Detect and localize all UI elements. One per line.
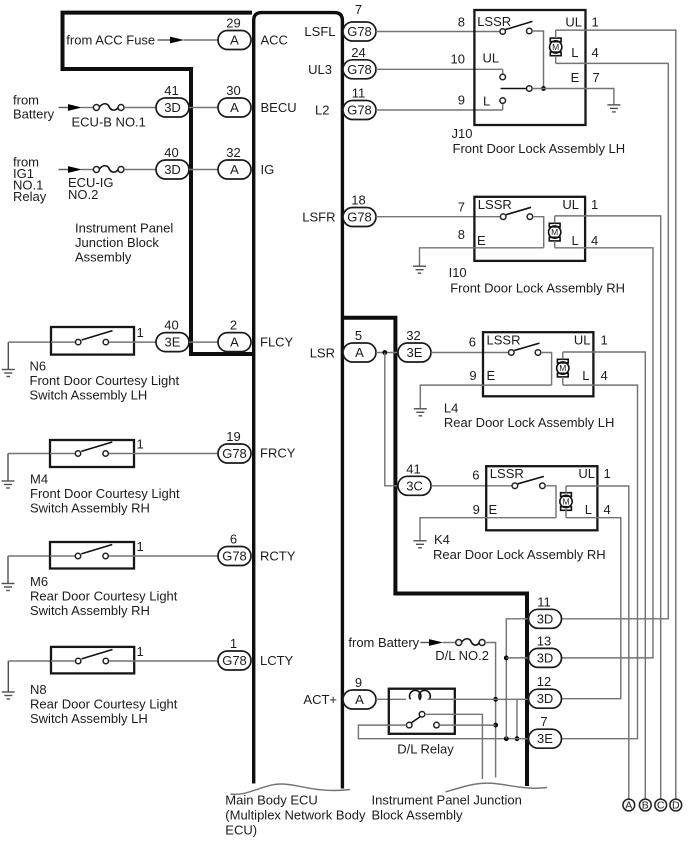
svg-text:J10: J10	[452, 126, 473, 141]
svg-text:BECU: BECU	[261, 100, 297, 115]
svg-text:Assembly: Assembly	[75, 250, 132, 265]
node: from Battery	[13, 92, 55, 121]
label L4 assembly	[444, 400, 615, 430]
svg-text:M: M	[559, 363, 566, 373]
svg-text:D/L Relay: D/L Relay	[397, 742, 454, 757]
svg-text:3D: 3D	[537, 691, 554, 706]
svg-text:9: 9	[355, 675, 362, 690]
svg-text:G78: G78	[222, 446, 247, 461]
relay coil	[410, 690, 431, 699]
connector oval 3C pin 41 (LSR branch)	[398, 461, 431, 495]
junction dot J10 E	[541, 86, 546, 91]
svg-text:11: 11	[352, 86, 366, 101]
svg-text:4: 4	[601, 368, 608, 383]
svg-text:RCTY: RCTY	[260, 549, 296, 564]
connector oval G78 pin 11 (L2)	[343, 86, 376, 120]
label Instrument Panel Junction Block Assembly (top)	[75, 221, 173, 265]
svg-text:ACC: ACC	[261, 33, 288, 48]
connector oval 3E pin 32 (LSR)	[398, 328, 431, 362]
relay contact switch	[406, 712, 439, 728]
svg-text:UL: UL	[565, 14, 582, 29]
svg-text:B: B	[642, 800, 649, 812]
svg-text:1: 1	[137, 644, 144, 659]
wire to fuse ECU-IG	[81, 169, 93, 171]
svg-text:UL: UL	[483, 50, 500, 65]
svg-text:Rear Door Courtesy Light: Rear Door Courtesy Light	[30, 697, 178, 712]
svg-text:3C: 3C	[406, 478, 423, 493]
wire fuse to 3D (IG)	[124, 169, 157, 171]
switch LSSR I10	[500, 207, 532, 219]
wire LSFR to I10 pin 7	[376, 216, 501, 218]
svg-text:A: A	[230, 162, 239, 177]
switch N8 Rear Door Courtesy Light Switch LH	[51, 647, 134, 674]
svg-text:Rear Door Lock Assembly RH: Rear Door Lock Assembly RH	[433, 547, 606, 562]
wire J10 switch to E junction	[532, 31, 543, 89]
wire M4 to G78	[134, 453, 219, 455]
main body ECU shield outline	[254, 13, 343, 789]
wire battery to fuse D/L	[443, 642, 456, 644]
svg-text:41: 41	[406, 461, 420, 476]
svg-text:G78: G78	[347, 62, 372, 77]
svg-text:9: 9	[469, 368, 476, 383]
svg-text:N6: N6	[30, 359, 47, 374]
svg-text:Front Door Lock Assembly LH: Front Door Lock Assembly LH	[453, 141, 626, 156]
wire battery to fuse	[81, 107, 93, 109]
svg-text:18: 18	[351, 193, 365, 208]
connector oval A pin 2 (FLCY)	[218, 318, 251, 352]
svg-text:E: E	[571, 70, 580, 85]
label I10 assembly	[449, 265, 625, 296]
junction dot coil branch on 3E wire	[515, 736, 520, 741]
connector oval 3E pin 7	[529, 714, 562, 748]
svg-text:5: 5	[355, 328, 362, 343]
svg-text:A: A	[355, 345, 364, 360]
svg-text:K4: K4	[434, 532, 450, 547]
svg-text:1: 1	[591, 197, 598, 212]
connector oval A pin 5 (LSR)	[343, 328, 376, 362]
wire 3D to A (BECU)	[189, 107, 219, 109]
svg-text:(Multiplex Network Body: (Multiplex Network Body	[225, 808, 366, 823]
svg-text:L: L	[582, 368, 589, 383]
svg-text:LSSR: LSSR	[487, 333, 521, 348]
wire branch coil to 3E wire	[516, 699, 518, 738]
svg-text:L: L	[571, 45, 578, 60]
switch common J10 (lower)	[501, 86, 533, 92]
ground I10	[413, 266, 426, 273]
ECU torn edge (wavy, bottom)	[231, 784, 351, 794]
svg-text:L: L	[571, 233, 578, 248]
svg-text:2: 2	[230, 318, 237, 333]
contact L J10	[500, 98, 506, 110]
label Main Body ECU	[225, 793, 366, 838]
wire LSR A to 3E	[376, 352, 399, 354]
svg-text:1: 1	[604, 466, 611, 481]
svg-text:UL: UL	[562, 197, 579, 212]
connector oval 3D pin 11	[529, 594, 562, 628]
fuse ECU-IG NO.2	[93, 166, 124, 173]
svg-text:G78: G78	[347, 210, 372, 225]
svg-text:9: 9	[458, 93, 465, 108]
svg-text:1: 1	[230, 636, 237, 651]
svg-text:E: E	[489, 502, 498, 517]
wire K4 UL pin 1 to connector A	[566, 486, 629, 799]
label N8 assembly	[30, 682, 178, 726]
svg-text:3D: 3D	[537, 650, 554, 665]
svg-text:LSSR: LSSR	[477, 14, 511, 29]
svg-text:6: 6	[230, 532, 237, 547]
svg-text:Relay: Relay	[13, 189, 47, 204]
arrow from ACC Fuse	[158, 39, 173, 41]
wire I10 UL pin 1 to connector C	[555, 216, 661, 799]
svg-text:LSSR: LSSR	[490, 466, 524, 481]
svg-text:13: 13	[537, 633, 551, 648]
wire J10 E pin 7 to ground	[532, 89, 614, 105]
svg-text:Battery: Battery	[13, 106, 55, 121]
svg-text:9: 9	[473, 502, 480, 517]
svg-text:10: 10	[451, 51, 465, 66]
wire ACC feed	[184, 39, 220, 41]
fuse ECU-B NO.1	[93, 104, 124, 111]
connector oval G78 pin 7 (LSFL)	[343, 2, 376, 41]
svg-text:3E: 3E	[537, 731, 553, 746]
svg-text:FRCY: FRCY	[260, 445, 296, 460]
svg-text:3E: 3E	[165, 335, 181, 350]
svg-text:8: 8	[458, 14, 465, 29]
svg-text:UL: UL	[578, 466, 595, 481]
wire fuse to 3D	[124, 107, 157, 109]
svg-text:C: C	[657, 800, 665, 812]
door lock K4 box	[486, 466, 597, 530]
wire L2 to J10 pin 9	[376, 109, 503, 111]
switch LSSR L4	[509, 343, 541, 355]
svg-text:1: 1	[137, 539, 144, 554]
wire L4 UL pin 1 to connector B	[563, 352, 646, 799]
svg-text:7: 7	[355, 2, 362, 17]
wire J10 L pin 4 to 3D pin 11	[556, 63, 669, 618]
wire ground to M4	[8, 453, 50, 455]
wire 3D to A (IG)	[189, 169, 219, 171]
svg-text:1: 1	[137, 437, 144, 452]
wire ground to N6	[8, 341, 51, 343]
svg-text:1: 1	[601, 333, 608, 348]
svg-text:L2: L2	[315, 103, 329, 118]
svg-text:M6: M6	[30, 574, 48, 589]
svg-text:1: 1	[137, 325, 144, 340]
svg-text:3D: 3D	[164, 100, 181, 115]
junction dot battery-contact	[493, 723, 498, 728]
svg-text:UL: UL	[574, 333, 591, 348]
connector oval A pin 30 (BECU)	[218, 83, 251, 117]
svg-text:G78: G78	[222, 653, 247, 668]
svg-text:41: 41	[164, 83, 178, 98]
connector oval A pin 32 (IG)	[218, 145, 251, 179]
label ECU-IG NO.2	[68, 175, 114, 202]
label M6 assembly	[30, 574, 178, 618]
connector oval G78 pin 24 (UL3)	[343, 45, 376, 79]
motor K4	[560, 486, 572, 518]
connector oval G78 pin 6 (RCTY)	[218, 532, 251, 566]
wire relay contact common to battery	[439, 724, 495, 726]
wire UL3 to J10 pin 10	[376, 68, 503, 70]
svg-text:LSFR: LSFR	[302, 210, 335, 225]
wire fuse to battery vertical	[485, 643, 496, 778]
svg-text:D: D	[672, 800, 680, 812]
label J10 assembly	[452, 126, 626, 156]
svg-text:Instrument Panel Junction: Instrument Panel Junction	[372, 793, 522, 808]
contact UL J10	[500, 69, 506, 79]
svg-text:Switch Assembly LH: Switch Assembly LH	[30, 711, 148, 726]
svg-text:1: 1	[592, 14, 599, 29]
svg-text:Front Door Courtesy Light: Front Door Courtesy Light	[30, 373, 180, 388]
svg-text:40: 40	[164, 318, 178, 333]
svg-text:M: M	[562, 497, 569, 507]
svg-text:40: 40	[164, 145, 178, 160]
wire I10 L pin 4 to 3D pin 13	[555, 248, 653, 658]
instrument panel junction block boundary (top)	[63, 13, 253, 354]
wire M6 to G78	[134, 555, 219, 557]
svg-text:from: from	[13, 92, 39, 107]
wire 3D pin 11 riser	[506, 619, 528, 739]
connector oval G78 pin 18 (LSFR)	[343, 193, 376, 227]
svg-text:from ACC Fuse: from ACC Fuse	[66, 32, 155, 47]
switch LSSR J10	[500, 21, 533, 34]
ground for M4	[2, 454, 15, 489]
label N6 assembly	[30, 359, 180, 403]
wire relay coil to 3D pin 12	[428, 698, 529, 700]
svg-text:L: L	[483, 93, 490, 108]
svg-text:L4: L4	[444, 400, 458, 415]
switch LSSR K4	[512, 476, 545, 488]
svg-text:24: 24	[351, 45, 365, 60]
svg-text:19: 19	[226, 429, 240, 444]
wire N6 to 3E	[134, 341, 157, 343]
junction block torn edge (wavy, bottom)	[446, 783, 548, 792]
wire J10 UL pin 1 to connector D	[556, 30, 676, 799]
junction dot 3E-3D11 riser	[504, 736, 509, 741]
fuse D/L NO.2	[456, 639, 485, 646]
door lock J10 box	[474, 10, 585, 125]
connector oval A pin 9 (ACT+)	[343, 675, 376, 709]
wire N8 to G78	[134, 660, 219, 662]
svg-text:7: 7	[458, 200, 465, 215]
svg-text:M: M	[551, 227, 558, 237]
svg-text:NO.2: NO.2	[68, 187, 98, 202]
svg-text:E: E	[487, 368, 496, 383]
switch M4 Front Door Courtesy Light Switch RH	[50, 440, 134, 467]
svg-text:Instrument Panel: Instrument Panel	[75, 221, 173, 236]
svg-text:3D: 3D	[164, 162, 181, 177]
svg-text:Switch Assembly RH: Switch Assembly RH	[30, 603, 150, 618]
svg-text:ECU): ECU)	[225, 823, 257, 838]
wire L4 E pin 9 to ground	[420, 385, 551, 408]
svg-text:32: 32	[226, 145, 240, 160]
motor J10	[550, 30, 562, 63]
page connector circle C	[655, 799, 667, 812]
wire L4 switch to E wire	[541, 353, 552, 386]
junction dot riser on 3D13 wire	[504, 656, 509, 661]
svg-text:IG: IG	[261, 162, 275, 177]
wire K4 switch to E wire	[545, 486, 556, 518]
svg-text:LSR: LSR	[310, 346, 335, 361]
connector oval 3D pin 40 (IG)	[156, 145, 189, 179]
svg-text:Front Door Courtesy Light: Front Door Courtesy Light	[30, 486, 180, 501]
svg-text:M: M	[552, 42, 559, 52]
svg-text:G78: G78	[222, 549, 247, 564]
svg-text:Front Door Lock Assembly RH: Front Door Lock Assembly RH	[450, 281, 625, 296]
wire I10 E pin 8 to ground	[420, 248, 544, 266]
label Instrument Panel Junction Block Assembly (bottom)	[372, 793, 522, 823]
svg-text:4: 4	[604, 502, 611, 517]
svg-text:ACT+: ACT+	[303, 692, 337, 707]
switch N6 Front Door Courtesy Light Switch LH	[51, 327, 134, 355]
connector oval G78 pin 1 (LCTY)	[218, 636, 251, 670]
svg-text:4: 4	[591, 233, 598, 248]
node: from IG1 NO.1 Relay	[13, 154, 47, 204]
svg-text:29: 29	[226, 16, 240, 31]
svg-text:7: 7	[540, 714, 547, 729]
svg-text:6: 6	[472, 468, 479, 483]
arrow from IG1 relay	[59, 169, 70, 171]
wire ACT+ to relay coil	[376, 698, 406, 700]
motor L4	[557, 352, 569, 385]
connector oval A pin 29 (ACC)	[218, 16, 251, 50]
label M4 assembly	[30, 472, 180, 516]
svg-text:3D: 3D	[537, 611, 554, 626]
svg-text:A: A	[230, 33, 239, 48]
wire I10 switch to E wire	[533, 217, 544, 248]
wire riser to 3D pin 13	[506, 657, 528, 659]
door lock I10 box	[474, 197, 585, 261]
svg-text:FLCY: FLCY	[260, 335, 294, 350]
svg-text:M4: M4	[30, 472, 48, 487]
svg-text:LSFL: LSFL	[304, 24, 335, 39]
svg-text:12: 12	[537, 674, 551, 689]
svg-text:Rear Door Lock Assembly LH: Rear Door Lock Assembly LH	[444, 415, 615, 430]
wire ground to M6	[8, 555, 50, 557]
page connector circle B	[639, 799, 651, 812]
wire 3C-41 to K4 pin 6	[431, 485, 513, 487]
wire LSFL to J10 pin 8	[376, 31, 500, 33]
svg-text:A: A	[230, 100, 239, 115]
ground J10	[607, 105, 620, 112]
svg-text:ECU-B NO.1: ECU-B NO.1	[72, 115, 146, 130]
wire K4 E pin 9 to ground	[420, 518, 556, 541]
connector oval 3D pin 12	[529, 674, 562, 708]
svg-text:11: 11	[537, 594, 551, 609]
wire ground to N8	[8, 660, 51, 662]
connector oval 3D pin 41 (BECU)	[156, 83, 189, 117]
wire 3E to A (FLCY)	[189, 341, 219, 343]
svg-text:32: 32	[406, 328, 420, 343]
wire K4 L pin 4 to 3D pin 12	[562, 518, 621, 699]
svg-text:D/L NO.2: D/L NO.2	[435, 648, 489, 663]
ground for M6	[2, 556, 15, 591]
svg-text:6: 6	[469, 334, 476, 349]
ground for N6	[2, 342, 15, 376]
svg-text:Rear Door Courtesy Light: Rear Door Courtesy Light	[30, 589, 178, 604]
door lock L4 box	[483, 332, 593, 396]
svg-text:from Battery: from Battery	[348, 635, 419, 650]
svg-text:G78: G78	[347, 103, 372, 118]
svg-text:Switch Assembly LH: Switch Assembly LH	[30, 388, 148, 403]
svg-text:N8: N8	[30, 682, 47, 697]
svg-text:I10: I10	[449, 265, 467, 280]
svg-text:3E: 3E	[407, 345, 423, 360]
switch M6 Rear Door Courtesy Light Switch RH	[50, 542, 134, 569]
junction dot battery-coil	[493, 697, 498, 702]
svg-text:E: E	[477, 233, 486, 248]
svg-text:A: A	[625, 800, 632, 812]
wire L4 L pin 4 to 3E pin 7	[562, 385, 638, 739]
instrument panel junction block boundary (bottom)	[344, 318, 527, 786]
svg-text:Main Body ECU: Main Body ECU	[225, 793, 317, 808]
page connector circle A	[623, 799, 635, 812]
svg-text:8: 8	[458, 227, 465, 242]
svg-text:7: 7	[593, 70, 600, 85]
svg-text:4: 4	[592, 45, 599, 60]
connector oval G78 pin 19 (FRCY)	[218, 429, 251, 463]
junction dot LSR branch	[382, 350, 387, 355]
svg-text:LSSR: LSSR	[478, 197, 512, 212]
motor I10	[549, 216, 561, 248]
label K4 assembly	[433, 532, 606, 562]
ground K4	[414, 541, 427, 548]
wire 3E pin 7 to relay common	[358, 725, 528, 739]
svg-text:LCTY: LCTY	[260, 653, 294, 668]
ground for N8	[2, 661, 15, 699]
svg-text:30: 30	[226, 83, 240, 98]
relay box D/L	[389, 689, 455, 734]
svg-text:Block Assembly: Block Assembly	[372, 808, 464, 823]
arrow from Battery (bottom)	[420, 642, 431, 644]
svg-text:L: L	[585, 502, 592, 517]
connector oval 3E pin 40 (FLCY)	[156, 318, 189, 352]
arrow from Battery	[59, 107, 70, 109]
svg-text:G78: G78	[347, 24, 372, 39]
ground L4	[414, 409, 427, 416]
connector oval 3D pin 13	[529, 633, 562, 667]
svg-text:Junction Block: Junction Block	[75, 235, 159, 250]
svg-text:A: A	[355, 692, 364, 707]
wire LSR branch down to 3C	[385, 353, 399, 486]
svg-text:A: A	[230, 335, 239, 350]
wire relay contact NO to junction block edge	[425, 714, 483, 779]
wire 3E-32 to L4 pin 6	[431, 352, 509, 354]
page connector circle D	[670, 799, 682, 812]
svg-text:UL3: UL3	[308, 62, 332, 77]
svg-text:Switch Assembly RH: Switch Assembly RH	[30, 501, 150, 516]
